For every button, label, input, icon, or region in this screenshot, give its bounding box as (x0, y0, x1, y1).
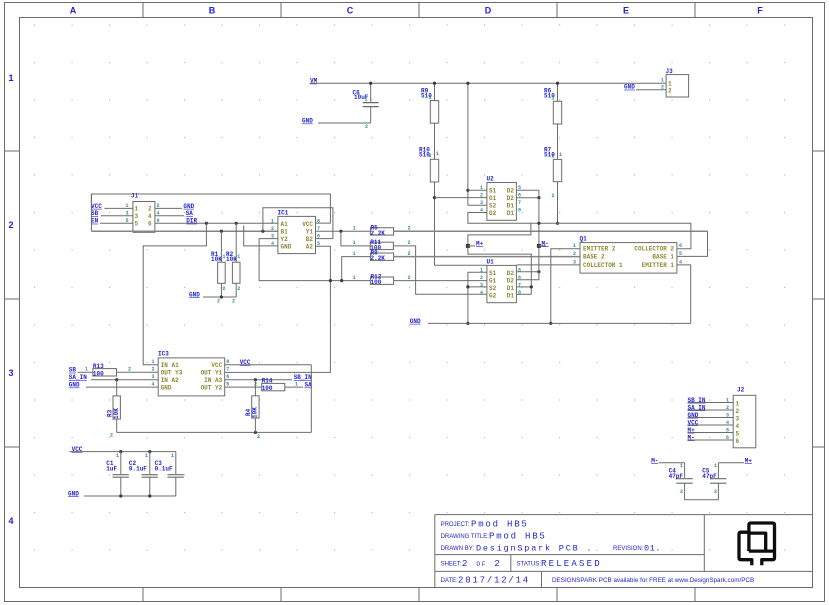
svg-text:GND: GND (302, 118, 313, 125)
wire VCC row (69, 451, 176, 453)
svg-text:U1: U1 (487, 258, 495, 265)
svg-text:GND: GND (183, 203, 194, 210)
svg-text:2: 2 (223, 286, 226, 292)
svg-text:510: 510 (544, 152, 555, 159)
svg-text:3: 3 (726, 413, 729, 419)
wire U2 drains D2 tie (to M-) (516, 189, 539, 191)
svg-text:M-: M- (542, 240, 549, 247)
svg-text:1: 1 (552, 96, 555, 102)
svg-text:3: 3 (135, 213, 139, 220)
svg-text:4: 4 (8, 516, 13, 526)
svg-text:SB_IN: SB_IN (294, 374, 312, 381)
svg-text:DRAWN BY:: DRAWN BY: (441, 546, 475, 552)
svg-text:4: 4 (148, 213, 152, 220)
svg-text:100: 100 (262, 385, 273, 392)
svg-text:2: 2 (573, 251, 576, 257)
svg-text:REVISION:: REVISION: (613, 546, 644, 552)
wire VCC row to IC1.B1 (90, 194, 92, 231)
wire Q1 emitter1 to GND rail (677, 265, 691, 324)
svg-text:IN A1: IN A1 (161, 362, 179, 369)
svg-text:1: 1 (429, 95, 432, 101)
svg-text:8: 8 (518, 290, 521, 296)
svg-text:J2: J2 (737, 387, 745, 394)
capacitor C6 (370, 83, 372, 102)
svg-text:3: 3 (8, 368, 13, 378)
svg-text:7: 7 (518, 200, 521, 206)
svg-text:DESIGNSPARK PCB available for: DESIGNSPARK PCB available for FREE at ww… (552, 577, 754, 584)
svg-text:GND: GND (189, 291, 200, 298)
wire VCC loop to IC1.B2 (263, 208, 333, 239)
svg-text:IC3: IC3 (158, 351, 169, 358)
svg-text:D1: D1 (507, 202, 515, 209)
svg-text:5: 5 (679, 251, 682, 257)
svg-text:OUT Y3: OUT Y3 (161, 369, 183, 376)
svg-text:D2: D2 (507, 195, 515, 202)
svg-text:100: 100 (371, 279, 382, 286)
svg-text:1: 1 (271, 218, 274, 224)
svg-text:DIR: DIR (186, 218, 197, 225)
svg-text:2: 2 (736, 408, 740, 415)
wire DIR branch down to IC3 (143, 223, 206, 364)
svg-text:OUT Y1: OUT Y1 (201, 369, 223, 376)
wire GND rail (428, 322, 691, 324)
svg-text:1: 1 (171, 453, 174, 459)
svg-text:1: 1 (353, 240, 356, 246)
svg-text:J3: J3 (666, 68, 674, 75)
wire DIR row J1 pin6 to IC1.A1 + net label DIR (155, 222, 278, 224)
svg-text:1: 1 (661, 77, 664, 83)
svg-text:D2: D2 (507, 270, 515, 277)
svg-text:S2: S2 (489, 285, 497, 292)
svg-text:A2: A2 (306, 244, 314, 251)
svg-text:2: 2 (237, 286, 240, 292)
svg-text:1: 1 (680, 463, 683, 469)
svg-text:B: B (209, 6, 216, 16)
svg-text:510: 510 (419, 152, 430, 159)
svg-text:1: 1 (668, 80, 672, 87)
net label M+ (466, 244, 470, 248)
svg-text:10K: 10K (211, 256, 222, 263)
svg-text:EN: EN (91, 218, 99, 225)
svg-text:GND: GND (624, 84, 635, 91)
svg-text:0.1uF: 0.1uF (129, 465, 147, 472)
svg-text:6: 6 (317, 233, 320, 239)
svg-text:C: C (347, 6, 354, 16)
wire U2.G2 snake (cross-coupling) (468, 213, 531, 295)
svg-text:1: 1 (237, 254, 240, 260)
svg-text:GND: GND (161, 384, 172, 391)
svg-text:2: 2 (257, 434, 260, 440)
svg-text:1: 1 (152, 359, 155, 365)
svg-text:B2: B2 (306, 236, 314, 243)
capacitor C4 47pF (684, 463, 686, 478)
svg-text:STATUS:: STATUS: (517, 561, 542, 567)
svg-text:D1: D1 (507, 210, 515, 217)
wire J1 pin2 + net label GND (155, 207, 182, 209)
svg-text:G1: G1 (489, 278, 497, 285)
svg-text:47pF: 47pF (669, 473, 684, 480)
svg-text:2 OF 2: 2 OF 2 (462, 559, 502, 569)
svg-text:IN A2: IN A2 (161, 377, 179, 384)
wire R8 left stub from Y2/R12 net (342, 257, 371, 281)
svg-text:SA: SA (186, 210, 194, 217)
svg-text:DesignSpark PCB .: DesignSpark PCB . (476, 544, 593, 554)
svg-text:GND: GND (410, 318, 421, 325)
svg-text:1: 1 (145, 453, 148, 459)
svg-text:2: 2 (668, 87, 672, 94)
svg-text:SA_IN: SA_IN (69, 374, 87, 381)
capacitor C1 1uF (120, 452, 122, 475)
wire R8 out to Q1.BASE2 (394, 256, 580, 258)
svg-text:2: 2 (128, 367, 131, 373)
wire R11 out to U1.G2 (393, 246, 487, 294)
wire Q1 emitter2 to GND rail (551, 249, 580, 324)
svg-text:D2: D2 (507, 187, 515, 194)
svg-text:S1: S1 (489, 270, 497, 277)
wire Q1 collector1 to U1 D1 column (516, 264, 580, 266)
svg-text:COLLECTOR 2: COLLECTOR 2 (634, 246, 674, 253)
svg-text:3: 3 (126, 211, 129, 217)
resistor R10 510 (430, 159, 438, 182)
svg-text:G2: G2 (489, 210, 497, 217)
wire R12 out to U1.G1 (394, 280, 487, 282)
svg-text:10K: 10K (252, 407, 259, 418)
wire IC1.GND pin4 stub (244, 226, 278, 246)
svg-text:2: 2 (726, 405, 729, 411)
wire VCC-R rail (117, 431, 312, 433)
svg-text:2: 2 (552, 193, 555, 199)
wire M- column (538, 198, 540, 272)
svg-text:Pmod HB5: Pmod HB5 (489, 532, 547, 542)
svg-text:5: 5 (518, 267, 521, 273)
svg-text:PROJECT:: PROJECT: (441, 522, 470, 528)
resistor R9 510 (434, 83, 436, 100)
wire U1 drains D2 tie to M- (516, 271, 539, 273)
svg-text:R13: R13 (93, 363, 104, 370)
resistor R14 100 + net label SA (225, 386, 262, 388)
svg-text:6: 6 (736, 438, 740, 445)
svg-text:2017/12/14: 2017/12/14 (458, 575, 530, 585)
svg-text:IN A3: IN A3 (204, 377, 222, 384)
capacitor C3 0.1uF (175, 452, 177, 475)
svg-text:0.1uF: 0.1uF (155, 465, 173, 472)
svg-text:1: 1 (116, 453, 119, 459)
svg-text:8: 8 (518, 207, 521, 213)
svg-text:10K: 10K (113, 408, 120, 419)
svg-text:GND: GND (68, 490, 79, 497)
resistor R1 10K (220, 231, 222, 262)
svg-text:7: 7 (226, 367, 229, 373)
svg-text:EMITTER 1: EMITTER 1 (642, 262, 675, 269)
svg-text:1: 1 (8, 73, 13, 83)
svg-text:10K: 10K (226, 256, 237, 263)
svg-text:SB: SB (91, 210, 99, 217)
svg-text:OUT Y2: OUT Y2 (201, 384, 223, 391)
svg-text:2: 2 (480, 275, 483, 281)
svg-text:COLLECTOR 1: COLLECTOR 1 (583, 262, 623, 269)
svg-text:8: 8 (317, 218, 320, 224)
wire J1 pin4 + net label SA (155, 215, 184, 217)
wire R7 bottom (557, 182, 559, 224)
svg-text:2: 2 (714, 489, 717, 495)
svg-text:6: 6 (148, 220, 152, 227)
wire gate row to Q1 collector2 (558, 223, 691, 248)
wire U1 drains D1 tie (516, 286, 531, 288)
svg-text:D2: D2 (507, 278, 515, 285)
svg-text:A: A (70, 6, 77, 16)
svg-text:1: 1 (736, 400, 740, 407)
svg-text:1: 1 (559, 152, 562, 158)
wire VM rail (310, 82, 666, 84)
svg-text:5: 5 (126, 218, 129, 224)
svg-text:3: 3 (736, 415, 740, 422)
svg-text:DRAWING TITLE:: DRAWING TITLE: (441, 534, 490, 540)
svg-text:BASE 2: BASE 2 (583, 253, 605, 260)
svg-text:SHEET:: SHEET: (441, 561, 462, 567)
title block (435, 514, 813, 516)
resistor R7 510 (553, 159, 561, 181)
svg-text:D: D (485, 6, 492, 16)
svg-text:1: 1 (295, 381, 298, 387)
wire R10 down to U2.G1 / U1 row (434, 182, 436, 265)
svg-text:U2: U2 (487, 176, 495, 183)
wire IC3.VCC out + net label VCC (225, 364, 312, 366)
wire U1 sources to GND rail (468, 272, 487, 323)
svg-text:2: 2 (8, 220, 13, 230)
svg-text:1: 1 (85, 367, 88, 373)
svg-text:1: 1 (353, 275, 356, 281)
wire R9-R10 (434, 123, 436, 159)
wire VM drop to U2 sources (467, 83, 469, 205)
resistor R2 10K (235, 223, 237, 262)
svg-text:4: 4 (726, 420, 729, 426)
svg-text:1: 1 (126, 203, 129, 209)
svg-text:2: 2 (680, 489, 683, 495)
svg-text:IC1: IC1 (278, 210, 289, 217)
svg-text:SA: SA (305, 382, 313, 389)
wire R6-R7 (557, 124, 559, 159)
svg-text:01.: 01. (644, 544, 661, 554)
svg-text:R14: R14 (262, 378, 273, 385)
wire C4-C5 bottoms (685, 499, 719, 501)
svg-text:M-: M- (651, 457, 658, 464)
svg-text:1: 1 (135, 205, 139, 212)
wire R5 out to Q1.BASE1 (394, 230, 708, 232)
svg-text:Pmod HB5: Pmod HB5 (471, 519, 529, 529)
svg-text:1: 1 (353, 226, 356, 232)
svg-text:BASE 1: BASE 1 (652, 253, 674, 260)
wire IC1.A2 to IC3.OUTY1 (225, 246, 331, 372)
svg-text:1: 1 (714, 463, 717, 469)
svg-text:S2: S2 (489, 202, 497, 209)
svg-text:4: 4 (480, 290, 483, 296)
svg-text:VCC: VCC (91, 203, 102, 210)
svg-text:DATE:: DATE: (441, 578, 459, 584)
wire IC1.Y1 output row (316, 230, 371, 232)
svg-text:2: 2 (271, 226, 274, 232)
svg-text:2.2K: 2.2K (371, 230, 386, 237)
svg-text:Y1: Y1 (306, 229, 314, 236)
svg-text:GND: GND (281, 244, 292, 251)
svg-text:4: 4 (736, 423, 740, 430)
resistor R4 100 (vertical) (254, 380, 256, 396)
svg-text:D1: D1 (507, 285, 515, 292)
resistor R6 510 (557, 83, 559, 101)
svg-text:D1: D1 (507, 293, 515, 300)
svg-text:5: 5 (736, 430, 740, 437)
wire Y1 branch down to R11 (341, 231, 370, 246)
svg-text:E: E (623, 6, 629, 16)
svg-text:Q1: Q1 (580, 236, 588, 243)
svg-text:F: F (757, 6, 763, 16)
svg-text:M+: M+ (745, 457, 753, 464)
svg-text:1: 1 (436, 151, 439, 157)
svg-text:5: 5 (135, 220, 139, 227)
svg-text:2: 2 (217, 299, 220, 305)
svg-text:B1: B1 (281, 229, 289, 236)
svg-text:Y2: Y2 (281, 236, 289, 243)
DesignSpark logo (739, 523, 775, 565)
svg-text:A1: A1 (281, 221, 289, 228)
svg-text:1: 1 (365, 96, 368, 102)
svg-text:EMITTER 2: EMITTER 2 (583, 246, 616, 253)
svg-text:6: 6 (679, 243, 682, 249)
svg-text:2: 2 (365, 124, 368, 130)
svg-text:S1: S1 (489, 187, 497, 194)
svg-text:VCC: VCC (211, 362, 222, 369)
wire IC3.IN A3 to SB_IN label (225, 379, 292, 381)
svg-text:RELEASED: RELEASED (541, 559, 602, 569)
svg-text:2: 2 (408, 240, 411, 246)
net label M- (537, 244, 541, 248)
svg-text:2: 2 (232, 299, 235, 305)
svg-text:2.2K: 2.2K (371, 255, 386, 262)
svg-text:G2: G2 (489, 293, 497, 300)
svg-text:VCC: VCC (302, 221, 313, 228)
svg-text:1uF: 1uF (106, 465, 117, 472)
svg-text:2: 2 (148, 205, 152, 212)
svg-text:M+: M+ (476, 240, 484, 247)
net label M+ (C5) (718, 462, 744, 464)
capacitor C2 0.1uF (149, 452, 151, 475)
svg-text:G1: G1 (489, 195, 497, 202)
svg-text:VCC: VCC (240, 359, 251, 366)
svg-text:6: 6 (726, 435, 729, 441)
svg-text:2: 2 (110, 433, 113, 439)
wire VCC loop (J1 top) (91, 194, 330, 223)
svg-text:100: 100 (93, 370, 104, 377)
svg-text:5: 5 (726, 428, 729, 434)
resistor R3 10K (vertical) (116, 380, 118, 396)
svg-text:2: 2 (254, 381, 257, 387)
svg-text:1: 1 (726, 398, 729, 404)
svg-text:2: 2 (480, 192, 483, 198)
svg-text:GND: GND (69, 382, 80, 389)
wire IC1.Y2 down-around to R12 row (259, 239, 370, 281)
svg-text:SB: SB (69, 367, 77, 374)
